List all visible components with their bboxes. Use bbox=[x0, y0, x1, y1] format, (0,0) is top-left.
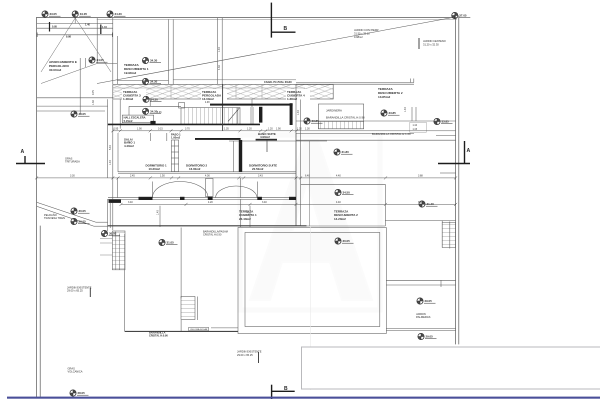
window wall line bbox=[108, 197, 296, 199]
left staircase down bbox=[112, 231, 125, 270]
svg-text:1.90: 1.90 bbox=[276, 128, 281, 131]
svg-text:CRISTAL H:0.90: CRISTAL H:0.90 bbox=[149, 334, 168, 337]
svg-text:4.06: 4.06 bbox=[157, 112, 162, 114]
svg-text:31.40: 31.40 bbox=[427, 202, 435, 206]
svg-text:34.30: 34.30 bbox=[151, 97, 159, 101]
svg-text:3.88: 3.88 bbox=[418, 175, 423, 178]
svg-text:4.90m2: 4.90m2 bbox=[260, 135, 270, 139]
svg-text:29.05: 29.05 bbox=[79, 220, 87, 224]
inner left wall lower bbox=[39, 226, 41, 397]
svg-text:1.40: 1.40 bbox=[157, 210, 160, 215]
barandilla line y227.5 bbox=[108, 225, 307, 227]
watermark logo bbox=[240, 135, 380, 310]
top boundary line bbox=[37, 17, 457, 19]
faint fold line bbox=[309, 141, 311, 226]
core floor: hall + stairs bbox=[37, 58, 253, 230]
svg-text:GRAS: GRAS bbox=[68, 366, 76, 370]
svg-text:1.40: 1.40 bbox=[297, 110, 300, 115]
svg-text:33.05: 33.05 bbox=[79, 112, 87, 116]
svg-text:34.50: 34.50 bbox=[343, 191, 351, 195]
terraza descubierta 2 lower rect bbox=[301, 135, 456, 248]
svg-text:14.20m2: 14.20m2 bbox=[334, 217, 346, 221]
interior walls of bedrooms bbox=[118, 103, 327, 226]
left diagonal path + peldano bbox=[37, 202, 108, 226]
svg-text:4.08: 4.08 bbox=[205, 102, 210, 104]
svg-text:CRISTAL H:0.90: CRISTAL H:0.90 bbox=[203, 234, 222, 237]
celosia solar box bbox=[189, 327, 209, 330]
terraza band labels (white backed) bbox=[122, 89, 310, 101]
dim line y204.4 bbox=[121, 203, 456, 205]
svg-text:28.05: 28.05 bbox=[78, 391, 86, 395]
bottom navy band bbox=[7, 397, 600, 399]
svg-text:34.05: 34.05 bbox=[97, 58, 105, 62]
svg-text:4.40: 4.40 bbox=[336, 175, 341, 178]
svg-text:1.50: 1.50 bbox=[160, 175, 165, 178]
section marker B bottom bbox=[272, 385, 295, 399]
svg-text:23.40m2: 23.40m2 bbox=[239, 217, 251, 221]
svg-text:34.30: 34.30 bbox=[115, 12, 123, 16]
svg-text:A: A bbox=[21, 149, 25, 155]
svg-text:1.10: 1.10 bbox=[102, 26, 107, 29]
svg-text:30.05: 30.05 bbox=[79, 209, 87, 213]
svg-text:1.30: 1.30 bbox=[92, 100, 95, 105]
svg-text:B: B bbox=[284, 386, 288, 392]
dim line row y128.6 bbox=[113, 130, 456, 132]
svg-text:1.20: 1.20 bbox=[297, 128, 302, 131]
svg-text:31.20 x 32.30: 31.20 x 32.30 bbox=[423, 43, 439, 47]
svg-text:3.40: 3.40 bbox=[262, 201, 267, 204]
svg-text:TRITURADA: TRITURADA bbox=[65, 160, 80, 164]
hatched terraza band bbox=[113, 85, 333, 100]
svg-text:34.30: 34.30 bbox=[150, 80, 158, 84]
svg-text:1.95m2: 1.95m2 bbox=[171, 135, 181, 139]
svg-text:31.80: 31.80 bbox=[342, 150, 350, 154]
svg-text:33.85: 33.85 bbox=[442, 120, 450, 124]
svg-text:3.43: 3.43 bbox=[258, 175, 263, 178]
svg-text:19.98m2: 19.98m2 bbox=[124, 71, 136, 75]
svg-text:30.05: 30.05 bbox=[343, 239, 351, 243]
svg-text:1.20: 1.20 bbox=[247, 128, 252, 131]
svg-text:34.30: 34.30 bbox=[150, 109, 158, 113]
svg-text:33.05: 33.05 bbox=[50, 12, 58, 16]
svg-text:0.75: 0.75 bbox=[92, 90, 95, 95]
svg-text:PALMERAS: PALMERAS bbox=[416, 315, 431, 319]
svg-text:29.05: 29.05 bbox=[425, 299, 433, 303]
svg-text:30.00m2: 30.00m2 bbox=[49, 68, 61, 72]
svg-text:29.05: 29.05 bbox=[426, 335, 434, 339]
svg-text:4.00: 4.00 bbox=[205, 175, 210, 178]
svg-text:B: B bbox=[284, 26, 288, 32]
svg-text:1.40: 1.40 bbox=[85, 24, 90, 27]
svg-text:5.15m2: 5.15m2 bbox=[124, 119, 133, 123]
verticals mid top bbox=[217, 18, 219, 84]
left wall below bbox=[108, 199, 250, 228]
svg-text:10.20m2: 10.20m2 bbox=[149, 167, 161, 171]
svg-text:20.50m2: 20.50m2 bbox=[252, 167, 264, 171]
svg-text:13.00m2: 13.00m2 bbox=[202, 97, 214, 101]
svg-text:1.40: 1.40 bbox=[109, 160, 112, 165]
svg-text:4.33: 4.33 bbox=[218, 65, 221, 70]
svg-text:1.90: 1.90 bbox=[137, 128, 142, 131]
svg-text:33.85: 33.85 bbox=[389, 111, 397, 115]
svg-text:TRAVIESA TREN: TRAVIESA TREN bbox=[44, 216, 65, 220]
svg-text:1.48m2: 1.48m2 bbox=[123, 97, 134, 101]
svg-text:3.30: 3.30 bbox=[70, 175, 75, 178]
jardinera tread hatch bbox=[318, 122, 363, 129]
canal pluvial label bbox=[173, 79, 296, 81]
svg-text:3.70: 3.70 bbox=[185, 128, 190, 131]
room labels bbox=[124, 131, 277, 171]
dim line y178 bbox=[37, 177, 456, 179]
right boundary double line bbox=[455, 16, 457, 344]
svg-text:37.05: 37.05 bbox=[459, 14, 467, 18]
svg-text:1.40: 1.40 bbox=[218, 47, 221, 52]
svg-text:CELOSIA SOLAR: CELOSIA SOLAR bbox=[190, 328, 208, 331]
wall from stairs down bbox=[108, 228, 238, 332]
svg-text:4.40m2: 4.40m2 bbox=[124, 144, 134, 148]
svg-text:34.05: 34.05 bbox=[80, 12, 88, 16]
section marker A right bbox=[438, 141, 470, 164]
svg-text:29.00 x 65.25: 29.00 x 65.25 bbox=[67, 289, 83, 293]
svg-text:0.15: 0.15 bbox=[158, 128, 163, 131]
svg-text:1.10: 1.10 bbox=[413, 125, 418, 127]
right wing: terraza descubierta 2 upper bbox=[296, 79, 456, 227]
outer plot boundary left bbox=[36, 18, 38, 398]
svg-text:CANAL PLUVIAL 30x30: CANAL PLUVIAL 30x30 bbox=[264, 81, 292, 84]
svg-text:0.95: 0.95 bbox=[52, 26, 57, 29]
svg-text:VOLCANICA: VOLCANICA bbox=[68, 370, 83, 374]
svg-text:9.98m2: 9.98m2 bbox=[354, 35, 363, 39]
svg-text:4.20: 4.20 bbox=[208, 201, 213, 204]
thick walls rooms bbox=[195, 138, 241, 140]
svg-text:1.30: 1.30 bbox=[305, 128, 310, 131]
svg-text:4.40: 4.40 bbox=[336, 201, 341, 204]
svg-text:34.30: 34.30 bbox=[150, 59, 158, 63]
wall thick: stair right bbox=[259, 107, 262, 123]
vertical dim texts bbox=[92, 47, 407, 215]
right stairs bbox=[442, 222, 455, 247]
svg-text:BARANDILLA CRISTAL H:0.90: BARANDILLA CRISTAL H:0.90 bbox=[326, 116, 365, 120]
dim numbers top-left bbox=[52, 24, 107, 39]
section marker B top bbox=[271, 3, 295, 38]
svg-text:JARDIN CENTENO: JARDIN CENTENO bbox=[423, 39, 446, 43]
svg-text:1.80: 1.80 bbox=[247, 210, 250, 215]
thick wall segments on window wall bbox=[109, 197, 297, 203]
svg-text:1.40: 1.40 bbox=[404, 107, 407, 112]
section marker A left bbox=[16, 156, 45, 164]
title block bottom right bbox=[302, 347, 600, 389]
svg-text:A: A bbox=[467, 148, 471, 154]
pool outer rect bbox=[238, 228, 386, 334]
svg-text:5.40: 5.40 bbox=[109, 145, 112, 150]
big diagonal across top bbox=[97, 18, 452, 84]
lower rooms band y178-200 bbox=[118, 178, 258, 197]
svg-text:29.00 x 65.25: 29.00 x 65.25 bbox=[237, 353, 253, 357]
svg-text:31.50 x 32.10: 31.50 x 32.10 bbox=[354, 32, 370, 36]
svg-text:30.05: 30.05 bbox=[109, 232, 117, 236]
jardin texts top right bbox=[354, 28, 379, 39]
wall thick: center bbox=[290, 103, 293, 125]
svg-text:BARANDILLA CRISTAL H:1.00: BARANDILLA CRISTAL H:1.00 bbox=[372, 132, 411, 136]
main staircase bbox=[108, 84, 260, 131]
svg-text:JARDIN CON PIEDR: JARDIN CON PIEDR bbox=[354, 28, 379, 32]
dim numbers below band bbox=[157, 102, 210, 114]
svg-text:31.05: 31.05 bbox=[167, 241, 175, 245]
top-left aparcamiento cluster bbox=[37, 18, 118, 84]
svg-text:33.85: 33.85 bbox=[312, 119, 320, 123]
level markers bbox=[42, 11, 470, 396]
svg-text:2.45: 2.45 bbox=[130, 175, 135, 178]
top boundary second line bbox=[97, 18, 457, 20]
svg-text:13.85m2: 13.85m2 bbox=[378, 95, 390, 99]
aparcamiento diagonals bbox=[41, 18, 111, 84]
svg-text:3.40: 3.40 bbox=[128, 201, 133, 204]
svg-text:1.20: 1.20 bbox=[268, 128, 273, 131]
svg-text:0.95: 0.95 bbox=[114, 128, 119, 131]
svg-text:9.98: 9.98 bbox=[66, 36, 71, 39]
svg-text:16.00m2: 16.00m2 bbox=[189, 167, 201, 171]
svg-text:JARDINERA: JARDINERA bbox=[326, 109, 342, 113]
terraza descubierta 1 area bbox=[117, 19, 173, 84]
jardin palmeras box bbox=[386, 280, 455, 330]
svg-text:1.35: 1.35 bbox=[224, 128, 229, 131]
